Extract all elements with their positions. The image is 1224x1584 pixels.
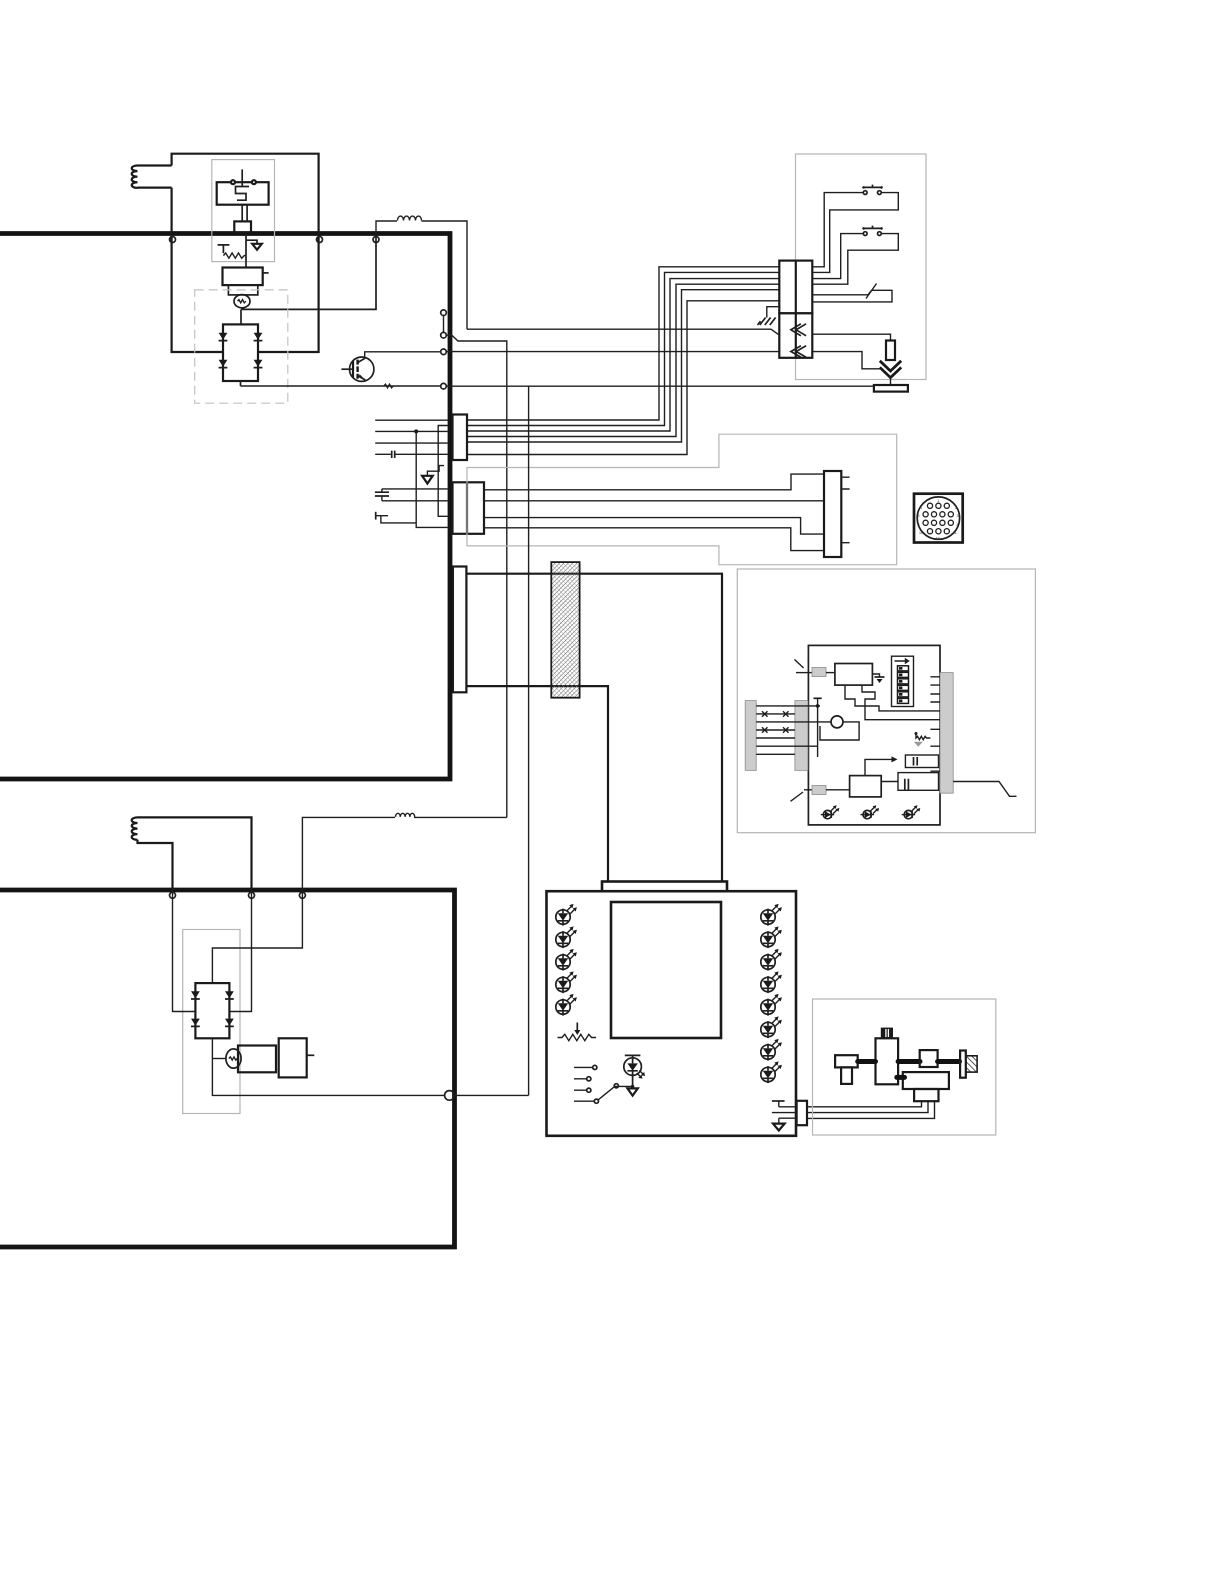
status LED D14 (761, 1039, 782, 1061)
stepped net U2 to header 2 (862, 685, 940, 720)
status LED D2 (556, 926, 577, 948)
wire Q1 collector to node (365, 352, 441, 357)
display pedestal (602, 882, 727, 893)
svg-text:2: 2 (955, 506, 957, 510)
harness to J4 wire 1 (484, 474, 824, 490)
regulator small block (920, 1050, 938, 1067)
node on bus (right box edge) (317, 237, 323, 243)
svg-text:9: 9 (918, 523, 920, 527)
choke L2 wire to blower box (302, 817, 395, 890)
status LED D13 (761, 1016, 782, 1038)
ground stub branch (246, 240, 257, 244)
limit switch loop with break symbol (812, 284, 892, 302)
wire relay to fuse (double) (242, 205, 247, 222)
status LED D5 (556, 994, 577, 1016)
svg-text:13: 13 (936, 537, 940, 541)
spark transformer arrow (865, 756, 898, 775)
wire node to riser (454, 1094, 528, 1096)
connector J1 (board edge) (453, 415, 468, 461)
svg-text:3: 3 (957, 514, 959, 518)
antenna stroke top (794, 659, 803, 668)
gas pipe bar left (858, 1059, 876, 1064)
connector J6 (valve) (797, 1101, 807, 1125)
plug chevrons row1 (791, 324, 806, 336)
relay actuator stem (241, 169, 243, 186)
dashed box around rectifier (195, 290, 288, 403)
ignitor electrode body (886, 341, 895, 361)
switch SW1 loop wires (812, 193, 898, 273)
switch SW1 (pushbutton) (862, 185, 883, 195)
harness to J4 wire 3 (484, 518, 824, 535)
gas pipe bar mid (898, 1059, 920, 1064)
blower board (thick box lower) (0, 890, 455, 1247)
valve harness wires (807, 1101, 935, 1118)
svg-text:5: 5 (918, 514, 920, 518)
node on blower box edge (left) (170, 892, 176, 898)
status LED D1 (556, 904, 577, 926)
capacitor C2 pair stubs (375, 489, 448, 501)
circular connector CN1 (914, 494, 963, 543)
ground G2 (open arrow) (422, 466, 444, 484)
choke L1 (398, 216, 422, 220)
status LED D15 (761, 1061, 782, 1083)
display window (611, 902, 721, 1038)
return wire to ignitor bar (446, 385, 874, 387)
ignitor feed wire (row2) (446, 352, 881, 369)
module input connector (gray bars) (745, 701, 808, 771)
wire bridge bottom to source line (240, 381, 242, 386)
jumper link A-B (443, 316, 445, 333)
transformer T2 primary coil (132, 817, 252, 890)
HV cap C3 (905, 755, 938, 768)
selector switch SW3 (574, 1065, 632, 1103)
node on bus (left box edge) (170, 237, 176, 243)
wire riser to blower transformer (528, 386, 530, 1095)
valve body with solenoid cap (876, 1028, 899, 1085)
node ring A (441, 310, 447, 316)
DIP switch S1 (892, 656, 914, 706)
connector J5 (display edge) (453, 567, 467, 693)
choke L2 wire (414, 816, 507, 818)
connector J4 (824, 471, 850, 557)
blower rectifier gray box (183, 930, 240, 1114)
transformer T1 primary coil (132, 166, 172, 188)
relay contact terminals (231, 180, 235, 184)
source/return long wire (241, 384, 442, 388)
sensor stub line 2 with junction (375, 429, 448, 433)
ground at U2 (872, 674, 884, 683)
chassis ground at J2 (758, 307, 780, 325)
edge connector shell (left of rail) (438, 426, 448, 517)
node ring C (Q1) (441, 349, 447, 355)
IC U2 (835, 664, 873, 686)
transistor Q2 (circle) (820, 716, 859, 740)
display cable line (466, 686, 608, 881)
blower motor M2 (212, 1038, 314, 1077)
burner bar (874, 385, 908, 392)
harness bundle wires P1 (467, 267, 779, 455)
module input wires (756, 706, 831, 754)
relay sub-box (gray) (212, 160, 275, 262)
board output stubs and ground (772, 1101, 797, 1131)
wire to bridge top (240, 309, 242, 324)
fuse F1 on bus (234, 221, 251, 232)
potentiometer/thermistor RT1 (558, 1023, 597, 1041)
ribbon cable (hatched) (551, 562, 579, 698)
wire BR2 output (212, 1038, 444, 1095)
gas valve assembly gray box (813, 999, 996, 1135)
sense cap T symbol (814, 698, 822, 757)
stub with T terminal (376, 431, 448, 527)
status LED D7 (761, 926, 782, 948)
node on bus (motor riser) (373, 237, 379, 243)
plug chevrons row2 (791, 346, 806, 357)
node ring B (441, 332, 447, 338)
node ring D (return) (441, 383, 447, 389)
control board box (547, 891, 797, 1136)
wire fuse down (245, 232, 247, 267)
wire feeds to bridge BR2 (173, 890, 303, 1012)
stepped net U2 to header (845, 685, 940, 711)
opto LED D10 (624, 1055, 645, 1095)
ground G1 (open arrow) (252, 244, 262, 250)
svg-text:10: 10 (919, 531, 923, 535)
relay K1 body (217, 182, 269, 205)
sensor T-bar and resistor (218, 245, 246, 258)
valve operator block (903, 1072, 949, 1101)
connector J2 upper (two columns) (779, 261, 812, 314)
wire motor to bus riser (242, 236, 376, 310)
choke L2 (396, 813, 415, 817)
IGBT Q1 (341, 357, 374, 381)
limit-control gray box (796, 154, 927, 380)
relay thermal element (236, 187, 250, 201)
input filter block (gray) bottom (791, 786, 850, 802)
main control board (thick box U1 region) (0, 234, 450, 780)
driver block U3 (850, 776, 882, 797)
sensor stub line 1 (375, 419, 448, 421)
status LED D8 (761, 949, 782, 971)
bridge rectifier BR2 (191, 983, 234, 1038)
svg-text:11: 11 (953, 531, 957, 535)
svg-text:4: 4 (920, 506, 922, 510)
sensor stub line 4 with capacitor C1 (375, 451, 448, 458)
bias resistor and ground (914, 732, 931, 747)
module output header (gray bar) (930, 673, 953, 794)
switch SW2 (pushbutton) (862, 226, 883, 236)
connector J2 lower section (779, 313, 812, 358)
choke L1 wire to bundle (422, 221, 468, 329)
node on blower box edge (mid) (249, 892, 255, 898)
svg-text:1: 1 (937, 499, 939, 503)
harness gray outline (stepped) (467, 434, 897, 565)
HV output lead (953, 782, 1016, 797)
status LED D3 (556, 949, 577, 971)
HV cap C4 (881, 773, 938, 791)
bridge rectifier BR1 (219, 324, 263, 381)
status LED D6 right column (761, 904, 782, 926)
status LED D4 (556, 971, 577, 993)
motor M1 (ellipse with winding) (234, 295, 250, 308)
gas valve block V1 (223, 268, 269, 295)
ignition module board (808, 645, 940, 825)
gas pipe bar right (938, 1059, 960, 1064)
ignition module gray box (737, 569, 1035, 833)
operator link bar (897, 1075, 905, 1080)
display enclosure outline (466, 574, 722, 882)
burner orifice (hatched) (966, 1056, 977, 1072)
switch SW2 loop wires (812, 234, 898, 285)
sensor stub line 3 (375, 442, 448, 444)
choke L1 wire from bus (376, 221, 397, 234)
input filter block (gray) top (796, 668, 835, 677)
harness to J4 wire 2 (484, 500, 824, 502)
status LED D12 (761, 994, 782, 1016)
pilot assembly left block (835, 1055, 858, 1084)
wire ignitor to burner bar (890, 378, 892, 385)
node ring on blower box edge (445, 1091, 455, 1101)
node on blower box edge (feed) (299, 892, 305, 898)
ignitor spark arrow (880, 361, 901, 378)
inner enclosure box (transformer/relay block) (172, 154, 319, 352)
flame sense wire with plug jog (467, 329, 891, 340)
module LED D11 (821, 805, 840, 819)
status LED D9 (761, 971, 782, 993)
harness to J4 wire 4 (484, 528, 824, 551)
manifold plate (960, 1051, 966, 1078)
wire node B to lower transformer riser (446, 335, 507, 817)
svg-text:8: 8 (957, 523, 959, 527)
connector J3 (board edge two columns) (453, 482, 485, 534)
